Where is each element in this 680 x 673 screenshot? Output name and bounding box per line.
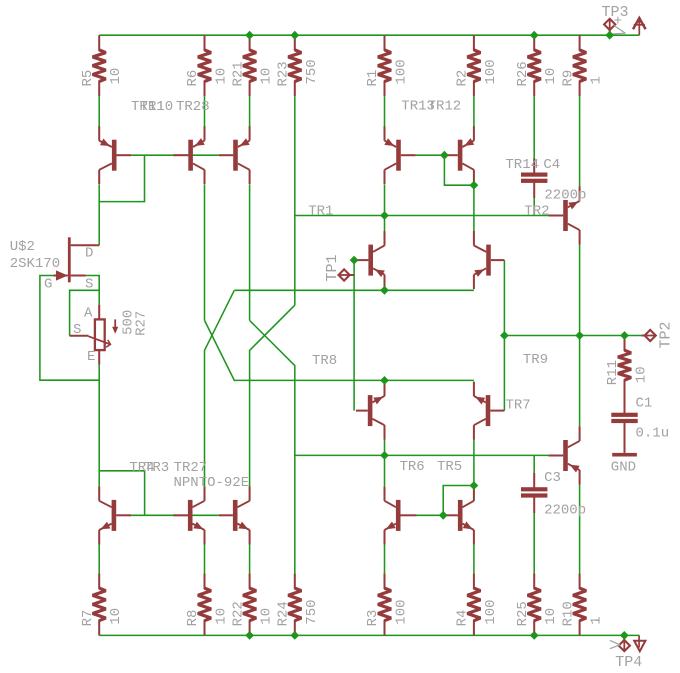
wire TR11 diode link (99, 155, 144, 201)
wire diag TR28 to R24 column (250, 320, 295, 573)
wire R23 column (294, 96, 296, 305)
wire upper emitter tie (234, 289, 474, 291)
junction TR12 collector (470, 181, 479, 190)
svg-text:TR6: TR6 (400, 459, 425, 475)
transistor TR2 (548, 187, 579, 245)
resistor R10 (560, 573, 604, 635)
wire R2 to TR12 emitter (473, 96, 475, 126)
junction R26 top (530, 31, 539, 40)
resistor R26 (515, 35, 559, 96)
testpoint TP1 (324, 254, 354, 281)
junction R24 bottom (290, 631, 299, 640)
svg-text:D: D (85, 246, 93, 262)
wire mid-left lower emitter (384, 380, 386, 394)
label NPN (174, 475, 199, 491)
wire mid-right base column (503, 260, 505, 411)
svg-text:C1: C1 (636, 396, 653, 412)
svg-text:TR27: TR27 (174, 460, 208, 476)
wire C4 to TR1 net (533, 198, 535, 216)
svg-text:R23: R23 (276, 61, 292, 86)
svg-text:R21: R21 (230, 61, 246, 86)
resistor R11 (605, 336, 649, 395)
svg-text:TR5: TR5 (437, 459, 462, 475)
label TR27 (174, 460, 208, 476)
junction R25 bottom (530, 631, 539, 640)
wire TR4 diode link (99, 471, 144, 516)
svg-text:10: 10 (214, 68, 230, 85)
node TR1 net (295, 215, 549, 217)
label TR7 (506, 397, 531, 413)
resistor R5 (80, 35, 124, 96)
svg-text:U$2: U$2 (10, 239, 35, 255)
junction TP3 (605, 31, 614, 40)
wire C3 tap (533, 455, 535, 473)
svg-text:R27: R27 (134, 311, 150, 336)
svg-text:0.1u: 0.1u (636, 426, 670, 442)
wire TR1 node to diamond collector (384, 216, 386, 232)
power V+ arrow (633, 18, 646, 35)
transistor TR9 (548, 427, 579, 485)
svg-text:R3: R3 (365, 610, 381, 627)
transistor TR11 (99, 126, 131, 184)
transistor TR14 upper-left of diamond (356, 231, 385, 289)
svg-text:10: 10 (108, 68, 124, 85)
svg-text:A: A (84, 306, 93, 322)
svg-text:R2: R2 (455, 70, 471, 87)
wire mid-left emitter (384, 276, 386, 290)
junction base drive node (380, 451, 389, 460)
transistor TR8 (356, 382, 385, 440)
wire bottom-left base bus (131, 514, 218, 516)
svg-text:750: 750 (304, 599, 320, 624)
wire diag R23 to TR27 collector (250, 305, 295, 486)
wire TR2 collector to output (579, 244, 581, 336)
wire TR13 base to junction (416, 154, 445, 156)
wire R9 to TR2 emitter (579, 96, 581, 187)
wire TR5 emitter to R4 (473, 544, 475, 573)
svg-text:TO-92E: TO-92E (199, 475, 249, 491)
testpoint TP3 (602, 4, 629, 35)
svg-text:2SK170: 2SK170 (10, 256, 60, 272)
transistor TR13 (384, 126, 415, 184)
wire TR12 collector down (473, 185, 475, 231)
node output net (504, 335, 641, 337)
transistor TR4 (99, 486, 131, 544)
svg-text:10: 10 (214, 608, 230, 625)
svg-text:R7: R7 (80, 610, 96, 627)
label TR2 (524, 203, 549, 219)
svg-text:2200p: 2200p (544, 187, 586, 203)
svg-text:10: 10 (543, 68, 559, 85)
junction TR5 TR6 bases (439, 511, 448, 520)
svg-text:TR1: TR1 (308, 203, 333, 219)
transistor TR12 (447, 126, 475, 184)
wire R27 pin A (98, 290, 100, 304)
transistor TR10 (173, 126, 204, 184)
svg-text:R4: R4 (455, 610, 471, 627)
junction output left (500, 331, 509, 340)
transistor TR27 (219, 486, 250, 544)
junction output (575, 331, 584, 340)
transistor TR5 (445, 486, 474, 544)
svg-text:TP4: TP4 (615, 654, 642, 671)
capacitor C3 (521, 473, 547, 513)
wire base drive net (295, 454, 549, 456)
label TR1 (308, 203, 333, 219)
resistor R9 (560, 35, 604, 96)
svg-text:TP1: TP1 (324, 254, 341, 281)
junction TP1 node (350, 256, 359, 265)
junction TR5 collector (470, 481, 479, 490)
svg-text:10: 10 (108, 608, 124, 625)
svg-text:TR14: TR14 (505, 157, 539, 173)
transistor TR3 (173, 486, 204, 544)
label TR14 (505, 157, 539, 173)
svg-text:R1: R1 (365, 70, 381, 87)
capacitor C1 (611, 380, 637, 453)
svg-text:G: G (44, 277, 52, 293)
svg-text:TR12: TR12 (428, 98, 462, 114)
resistor R4 (455, 573, 499, 635)
svg-text:10: 10 (259, 608, 275, 625)
wire JFET source loop (70, 276, 100, 336)
junction R11 top (620, 331, 629, 340)
svg-text:R22: R22 (230, 601, 246, 626)
label C4 (543, 157, 560, 173)
resistor R3 (365, 573, 409, 635)
JFET U$2 2SK170 (10, 237, 100, 292)
svg-text:TR2: TR2 (524, 203, 549, 219)
svg-text:TR28: TR28 (176, 99, 210, 115)
wire TR7 collector to TR5 (473, 439, 475, 486)
resistor R25 (515, 573, 559, 635)
label TR28 (176, 99, 210, 115)
junction R21 top (245, 31, 254, 40)
svg-text:C3: C3 (544, 470, 561, 486)
resistor R6 (185, 35, 229, 96)
svg-text:S: S (73, 322, 81, 338)
label TR13 (401, 98, 435, 114)
svg-text:TR8: TR8 (312, 353, 337, 369)
svg-text:100: 100 (394, 599, 410, 624)
wire TR6 emitter to R3 (384, 544, 386, 573)
svg-text:100: 100 (483, 59, 499, 84)
wire TR4 emitter to R7 (98, 544, 100, 573)
ground GND (611, 453, 637, 476)
wire R1 to TR13 emitter (384, 96, 386, 126)
label TO-92E (199, 475, 249, 491)
junction R23 top (290, 31, 299, 40)
svg-text:R9: R9 (560, 70, 576, 87)
wire TR9 emitter to R10 (579, 484, 581, 573)
transistor upper-right of diamond (474, 231, 505, 289)
svg-text:R26: R26 (515, 61, 531, 86)
testpoint TP4 (594, 613, 643, 671)
svg-text:-: - (594, 613, 602, 629)
wire JFET gate down (40, 276, 99, 381)
junction lower emitter rail (380, 376, 389, 385)
power V- arrow (634, 635, 645, 651)
transistor TR7 (474, 382, 505, 440)
wire R26 to C4 (533, 96, 535, 159)
svg-text:2200p: 2200p (544, 503, 586, 519)
wire TR11 collector to JFET drain (98, 185, 100, 246)
wire TR13 collector to TR1 node (384, 185, 386, 216)
testpoint TP2 (641, 321, 674, 348)
svg-text:TP2: TP2 (658, 321, 675, 348)
label TR6 (400, 459, 425, 475)
label C3 (544, 470, 561, 486)
wire V+ top rail (99, 34, 639, 36)
label TR12 (428, 98, 462, 114)
svg-text:TR7: TR7 (506, 397, 531, 413)
transistor TR28 (219, 126, 250, 184)
label TR4 (129, 460, 154, 476)
label TR3 (144, 460, 169, 476)
resistor R24 (276, 573, 320, 635)
svg-text:750: 750 (304, 59, 320, 84)
resistor R23 (276, 35, 320, 96)
wire TR28 collector down (249, 185, 251, 321)
wire upper emitter rail (205, 290, 235, 486)
wire top-left base bus (131, 154, 218, 156)
junction R22 bottom (245, 631, 254, 640)
wire TR6 collector up (384, 455, 386, 486)
svg-text:R11: R11 (605, 360, 621, 385)
wire TR3 emitter to R8 (204, 544, 206, 573)
label TR9 (523, 352, 548, 368)
svg-text:NPN: NPN (174, 475, 199, 491)
wire TR10 collector down (204, 185, 206, 321)
junction TP4 (620, 631, 629, 640)
capacitor C4 (521, 159, 547, 199)
resistor R7 (80, 573, 124, 635)
svg-text:GND: GND (611, 460, 636, 476)
resistor R22 (230, 573, 274, 635)
wire gate node to TR4 collector (98, 365, 100, 487)
label C3 value 2200p (544, 503, 586, 519)
wire TP1 column (353, 260, 355, 411)
resistor R21 (230, 35, 274, 96)
transistor TR6 (385, 486, 417, 544)
label TR11 (131, 99, 165, 115)
wire V- bottom rail (99, 634, 639, 636)
resistor R2 (455, 35, 499, 96)
svg-text:R8: R8 (185, 610, 201, 627)
label C1 (636, 396, 653, 412)
svg-text:10: 10 (543, 608, 559, 625)
label C1 value 0.1u (636, 426, 670, 442)
svg-text:E: E (87, 349, 95, 365)
trimmer R27 500 (70, 305, 150, 365)
junction TR13 TR12 bases (440, 151, 449, 160)
wire TR5 TR6 base tie (417, 486, 474, 516)
resistor R8 (185, 573, 229, 635)
wire diag TR10 to lower emitter rail (205, 320, 474, 380)
svg-text:TR10: TR10 (140, 99, 174, 115)
label TR5 (437, 459, 462, 475)
junction upper emitter rail (380, 286, 389, 295)
svg-text:R10: R10 (560, 601, 576, 626)
svg-text:10: 10 (634, 366, 650, 383)
svg-text:TR9: TR9 (523, 352, 548, 368)
svg-text:C4: C4 (543, 157, 560, 173)
wire R6 to TR10 emitter (204, 96, 206, 126)
label TR10 (140, 99, 174, 115)
wire R5 to TR11 emitter (98, 96, 100, 126)
svg-text:R5: R5 (80, 70, 96, 87)
svg-text:TR3: TR3 (144, 460, 169, 476)
wire TR8 collector to node (384, 439, 386, 455)
svg-text:R25: R25 (515, 601, 531, 626)
wire C3 to R25 (533, 513, 535, 574)
svg-text:+: + (614, 14, 622, 30)
svg-text:R6: R6 (185, 70, 201, 87)
wire TR12 diode link (444, 155, 474, 185)
junction TR1 node (380, 211, 389, 220)
svg-text:10: 10 (259, 68, 275, 85)
svg-text:1: 1 (589, 76, 605, 84)
wire R21 to TR28 emitter (249, 96, 251, 126)
wire TR27 emitter to R22 (249, 544, 251, 573)
svg-text:R24: R24 (276, 601, 292, 626)
svg-text:100: 100 (483, 599, 499, 624)
label TR8 (312, 353, 337, 369)
wire output to TR9 collector (579, 336, 581, 428)
svg-text:100: 100 (394, 59, 410, 84)
label C4 value 2200p (544, 187, 586, 203)
resistor R1 (365, 35, 409, 96)
svg-text:S: S (85, 277, 93, 293)
